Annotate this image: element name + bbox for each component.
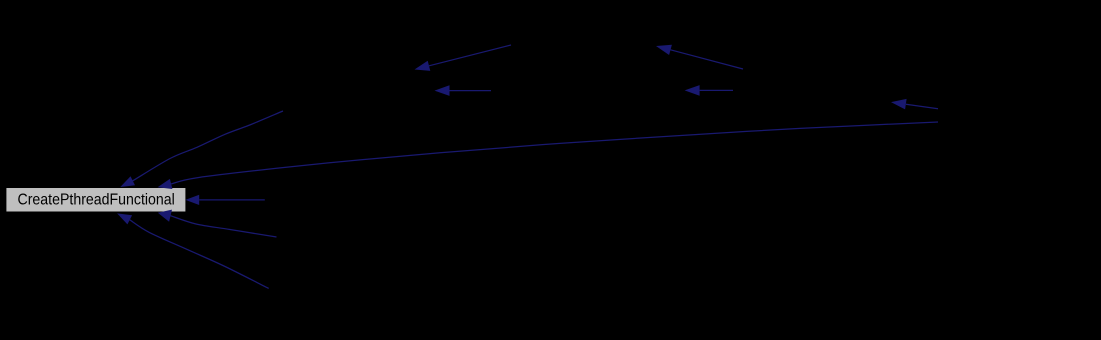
svg-text:CreatePthreadFunctional: CreatePthreadFunctional: [18, 192, 175, 209]
